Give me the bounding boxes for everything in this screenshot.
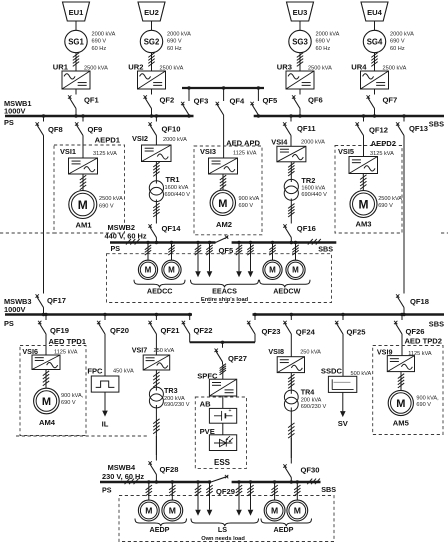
wire AEDP2 motor1 [274,484,276,501]
svg-text:QF1: QF1 [84,95,100,104]
dashed box AED TPD1 [20,346,86,436]
cable TR4-QF30 [290,408,292,459]
cable VSI5-AM3 [362,174,364,191]
cable TR3-QF28 [155,405,157,455]
circuit breaker QF1 [75,89,77,95]
svg-text:450 kVA: 450 kVA [113,369,134,375]
svg-text:PS: PS [102,486,112,495]
dashed box ESS [195,397,246,468]
wire FPC-IL [104,392,106,411]
engine unit EU3 [287,2,314,21]
svg-text:EU3: EU3 [293,8,308,17]
svg-text:QF14: QF14 [162,224,182,233]
svg-text:TR2: TR2 [301,176,315,185]
busbar MSWB4 PS section [100,481,211,484]
svg-text:AEDP: AEDP [150,525,170,534]
brace AEDCW [260,280,311,288]
junctions MSWB4 [147,480,150,483]
generator SG4 [363,30,385,52]
svg-text:AEPD1: AEPD1 [95,135,121,144]
junctions MSWB2 [146,241,149,244]
wire EU2-SG2 [151,21,153,30]
svg-text:PS: PS [4,319,14,328]
wire QF13-QF18 [403,139,405,288]
svg-text:AED TPD1: AED TPD1 [48,337,86,346]
svg-text:200 kVA: 200 kVA [301,397,322,403]
cable VSI7-TR3 [155,370,157,391]
wire QF8-QF17 [43,139,45,288]
bus cable marks MSWB4 left [125,479,130,485]
svg-text:M: M [168,266,175,275]
svg-text:+: + [229,408,232,414]
cable VSI8-TR4 [290,373,292,394]
transformer TR2 [284,179,298,193]
svg-text:QF13: QF13 [409,124,428,133]
svg-text:VSI9: VSI9 [377,347,393,356]
svg-text:QF19: QF19 [50,326,69,335]
svg-text:2000 kVA: 2000 kVA [163,137,187,143]
svg-text:690/230 V: 690/230 V [164,402,190,408]
junctions MSWB1 [42,114,45,117]
svg-text:M: M [292,266,299,275]
svg-text:QF2: QF2 [160,95,175,104]
svg-text:AEDCC: AEDCC [147,287,173,296]
svg-text:690/440 V: 690/440 V [301,192,327,198]
svg-text:QF17: QF17 [47,296,66,305]
svg-text:UR1: UR1 [53,62,69,71]
svg-text:AEDCW: AEDCW [273,287,300,296]
svg-text:QF4: QF4 [230,96,246,105]
svg-text:690 V: 690 V [316,39,331,45]
svg-text:690 V: 690 V [239,203,254,209]
svg-text:2500 kVA: 2500 kVA [378,196,402,202]
motor AM5 [388,390,413,415]
tie breaker QF5 MSWB2 [216,237,229,243]
zone divider dashed right [441,232,448,234]
wire AEDCW motor2 [295,244,297,260]
brace AEDP1 [135,519,187,527]
wire SPFC-AB [222,396,224,408]
node line QF22-QF23 [190,341,255,343]
generator SG2 [140,30,162,52]
motor AM1 [69,191,97,219]
svg-text:SG3: SG3 [292,38,308,47]
circuit breaker QF16 [290,218,292,224]
load feeder arrows LS [197,484,199,510]
svg-text:SBS: SBS [429,120,444,129]
transformer TR3 [149,387,163,401]
motor AM3 [350,191,377,218]
cable SG2-UR2 [151,53,153,67]
node tie-QF4 [223,88,225,96]
svg-text:QF24: QF24 [296,327,316,336]
svg-text:M: M [145,506,152,516]
engine unit EU4 [361,2,388,21]
wire AEDCW motor1 [272,244,274,260]
dashed box AEPD2 [335,146,402,234]
wire AB-PVE [222,423,224,435]
svg-text:SBS: SBS [321,485,336,494]
svg-text:QF30: QF30 [301,466,320,475]
svg-text:SSDC: SSDC [321,367,343,376]
bus cable marks MSWB4 right [307,479,312,485]
svg-text:690/440 V: 690/440 V [165,192,191,198]
svg-text:690/230 V: 690/230 V [301,404,327,410]
svg-text:SBS: SBS [429,319,444,328]
circuit breaker QF9 [82,116,84,122]
wire EU1-SG1 [75,21,77,30]
svg-text:690 V: 690 V [61,400,76,406]
svg-text:2000 kVA: 2000 kVA [301,140,325,146]
svg-text:QF26: QF26 [406,327,425,336]
motor AM4 [34,388,60,414]
wire SSDC-SV [342,392,344,411]
cable VSI9-AM5 [400,372,402,391]
circuit breaker QF28 [155,455,157,461]
svg-text:IL: IL [102,420,109,429]
busbar MSWB1 PS section [5,115,194,118]
svg-text:M: M [359,197,369,211]
svg-text:VSI2: VSI2 [132,134,148,143]
cable SG3-UR3 [299,53,301,67]
dashed box own needs load [119,496,334,542]
svg-text:900 kVA: 900 kVA [239,196,260,202]
busbar MSWB4 SBS section [232,481,321,484]
circuit breaker QF19 [45,315,47,321]
zone divider dashed left [0,232,54,234]
svg-text:M: M [169,506,176,516]
svg-text:M: M [78,198,88,212]
svg-text:AED TPD2: AED TPD2 [404,337,442,346]
svg-text:AEDP: AEDP [274,525,294,534]
svg-text:UR4: UR4 [351,62,367,71]
cable VSI4-TR2 [290,162,292,182]
svg-text:690 V: 690 V [99,203,114,209]
wire TR1-QF14 [155,200,157,219]
svg-text:AM5: AM5 [393,418,410,427]
circuit breaker QF22 [189,315,191,321]
svg-text:QF28: QF28 [160,465,179,474]
cable VSI2-TR1 [155,162,157,184]
brace LS [191,519,259,527]
svg-text:900 kVA,: 900 kVA, [416,395,439,401]
wire AEDP1 motor1 [148,484,150,501]
svg-text:690 V: 690 V [416,402,431,408]
svg-text:690 V: 690 V [390,39,405,45]
svg-text:QF23: QF23 [262,327,281,336]
wire AEDP2 motor2 [296,484,298,501]
junctions MSWB3 [42,313,45,316]
svg-text:Own needs load: Own needs load [201,536,245,542]
svg-text:QF21: QF21 [161,326,181,335]
circuit breaker QF13 [403,116,405,122]
svg-text:PS: PS [4,118,14,127]
svg-text:AM2: AM2 [216,220,232,229]
generator SG3 [289,30,311,52]
svg-text:M: M [145,266,152,275]
svg-text:Entire ship's load: Entire ship's load [201,297,249,303]
brace AEDP2 [261,519,312,527]
wire AEDCC motor1 [147,244,149,260]
busbar MSWB2 PS section [110,241,216,244]
circuit breaker QF7 [374,89,376,95]
svg-text:QF29: QF29 [216,487,235,496]
svg-text:MSWB2: MSWB2 [108,223,136,232]
arrow SV load [340,411,346,417]
svg-text:VSI1: VSI1 [60,147,76,156]
wire AEDCC motor2 [171,244,173,260]
circuit breaker QF23 [254,315,256,321]
svg-text:1000V: 1000V [4,305,25,314]
motor AEDP2 2 [287,500,308,521]
svg-text:QF18: QF18 [410,297,429,306]
svg-text:MSWB4: MSWB4 [108,463,136,472]
busbar MSWB1 SBS section [254,115,444,118]
svg-text:1125 kVA: 1125 kVA [408,351,432,357]
svg-text:FPC: FPC [87,366,103,375]
svg-text:UR3: UR3 [277,62,292,71]
node tie-QF5 [257,88,259,96]
cable VSI1-AM1 [82,174,84,191]
svg-text:690 V: 690 V [92,39,107,45]
load feeder arrows EEACS [197,244,199,271]
svg-text:M: M [294,506,301,516]
circuit breaker QF26 [401,315,403,321]
svg-text:QF8: QF8 [48,125,63,134]
svg-text:ESS: ESS [214,458,231,467]
circuit breaker QF12 [363,116,365,122]
svg-text:SBS: SBS [318,244,333,253]
circuit breaker QF4 [223,96,225,102]
svg-text:TR1: TR1 [166,175,180,184]
circuit breaker QF30 [290,458,292,464]
busbar MSWB3 PS section [5,313,192,316]
circuit breaker QF20 [104,315,106,321]
svg-text:TR4: TR4 [301,387,315,396]
busbar MSWB2 SBS section [232,241,337,244]
zone divider dashed bottom-left [16,435,148,437]
motor AEDP1 1 [138,500,159,521]
cable VSI3-AM2 [222,174,224,190]
svg-text:QF5: QF5 [219,246,235,255]
svg-text:QF3: QF3 [194,96,209,105]
circuit breaker QF8 [43,116,45,122]
wire TR2-QF16 [290,199,292,219]
brace AEDCC [134,280,185,288]
svg-text:SV: SV [338,419,349,428]
svg-text:QF9: QF9 [88,125,103,134]
circuit breaker QF24 [290,315,292,321]
generator SG1 [65,30,87,52]
svg-text:QF27: QF27 [228,354,247,363]
svg-text:AM3: AM3 [355,220,371,229]
cable VSI6-AM4 [45,370,47,389]
circuit breaker QF11 [290,116,292,122]
svg-text:1600 kVA: 1600 kVA [301,186,325,192]
circuit breaker QF14 [155,218,157,224]
svg-text:AM4: AM4 [39,418,56,427]
motor AEDP2 1 [264,500,285,521]
svg-text:M: M [42,396,51,408]
svg-text:QF7: QF7 [383,95,398,104]
wire EU3-SG3 [299,21,301,30]
svg-text:QF11: QF11 [297,124,316,133]
motor AM2 [210,190,235,215]
MSWB1 tie busbar [182,87,264,89]
svg-text:60 Hz: 60 Hz [92,46,107,52]
circuit breaker QF2 [151,89,153,95]
svg-text:2000 kVA: 2000 kVA [390,32,414,38]
svg-text:1600 kVA: 1600 kVA [165,185,189,191]
svg-text:SG2: SG2 [144,38,160,47]
svg-text:QF22: QF22 [194,326,213,335]
svg-text:LS: LS [218,525,227,534]
engine unit EU1 [63,2,90,21]
cable SG1-UR1 [75,53,77,67]
svg-text:690 V: 690 V [167,39,182,45]
svg-text:PS: PS [111,244,121,253]
busbar MSWB3 SBS section [253,313,445,316]
circuit breaker QF18 [403,288,405,294]
svg-text:2000 kVA: 2000 kVA [167,32,191,38]
svg-text:QF12: QF12 [369,125,388,134]
dashed box entire ships load [107,254,332,303]
svg-text:QF16: QF16 [297,224,316,233]
svg-text:TR3: TR3 [164,386,178,395]
svg-text:200 kVA: 200 kVA [164,396,185,402]
circuit breaker QF17 [43,288,45,294]
svg-text:EEACS: EEACS [212,287,237,296]
svg-text:AED APD: AED APD [226,138,260,147]
svg-text:EU1: EU1 [69,8,85,17]
motor AEDCW 2 [286,260,305,279]
wire AEDP1 motor2 [171,484,173,501]
bus cable marks MSWB2 left [126,239,131,245]
node tie-QF3 [188,88,190,96]
svg-text:60 Hz: 60 Hz [167,46,182,52]
svg-text:60 Hz: 60 Hz [390,46,405,52]
transformer TR1 [149,181,163,195]
svg-text:QF20: QF20 [110,326,129,335]
svg-text:690 V: 690 V [378,203,393,209]
svg-text:VSI6: VSI6 [22,347,38,356]
svg-text:M: M [218,198,227,210]
svg-text:QF5: QF5 [263,96,279,105]
wire EU4-SG4 [374,21,376,30]
dashed box AEPD1 [54,145,125,233]
arrow IL load [102,411,108,417]
svg-text:VSI4: VSI4 [271,137,288,146]
svg-text:AM1: AM1 [75,220,92,229]
svg-text:440 V, 60 Hz: 440 V, 60 Hz [105,232,147,241]
svg-text:SG4: SG4 [367,38,383,47]
svg-text:AB: AB [200,400,211,409]
svg-text:EU4: EU4 [367,8,383,17]
svg-text:M: M [396,398,405,410]
svg-text:QF6: QF6 [308,95,323,104]
circuit breaker QF5 (MSWB1 tie) [257,96,259,102]
svg-text:900 kVA,: 900 kVA, [61,393,84,399]
svg-text:QF25: QF25 [347,327,367,336]
svg-text:M: M [269,266,276,275]
svg-text:2000 kVA: 2000 kVA [316,32,340,38]
svg-text:QF10: QF10 [162,125,181,134]
svg-text:1125 kVA: 1125 kVA [233,151,257,157]
circuit breaker QF27 [222,342,224,348]
tie breaker QF29 MSWB4 [211,476,228,482]
transformer TR4 [284,390,298,404]
svg-text:2000 kVA: 2000 kVA [92,32,116,38]
motor AEDCC 1 [138,260,157,279]
circuit breaker QF21 [155,315,157,321]
svg-text:M: M [271,506,278,516]
svg-text:2500 kVA: 2500 kVA [99,196,123,202]
motor AEDP1 2 [162,500,183,521]
circuit breaker QF3 [188,96,190,102]
engine unit EU2 [138,2,165,21]
bus cable marks MSWB2 right [308,239,313,245]
circuit breaker QF25 [342,315,344,321]
svg-text:60 Hz: 60 Hz [316,46,331,52]
brace EEACS [191,280,259,288]
wire QF4 to AED APD [223,122,225,158]
cable SG4-UR4 [374,53,376,67]
svg-text:1000V: 1000V [4,106,25,115]
dashed box AED APD [194,146,262,235]
svg-text:250 kVA: 250 kVA [300,349,321,355]
svg-text:UR2: UR2 [128,62,143,71]
svg-text:SG1: SG1 [68,38,84,47]
motor AEDCC 2 [162,260,181,279]
svg-text:VSI3: VSI3 [200,147,216,156]
svg-text:VSI8: VSI8 [268,347,284,356]
svg-text:AEPD2: AEPD2 [371,139,396,148]
motor AEDCW 1 [263,260,282,279]
circuit breaker QF6 [299,89,301,95]
svg-text:VSI5: VSI5 [338,147,354,156]
svg-text:EU2: EU2 [144,8,159,17]
cable QF27-SPFC [222,364,224,379]
dashed box AED TPD2 [373,346,443,435]
circuit breaker QF10 [155,116,157,122]
svg-text:250 kVA: 250 kVA [154,348,175,354]
svg-text:3125 kVA: 3125 kVA [93,151,117,157]
svg-text:VSI7: VSI7 [132,346,148,355]
